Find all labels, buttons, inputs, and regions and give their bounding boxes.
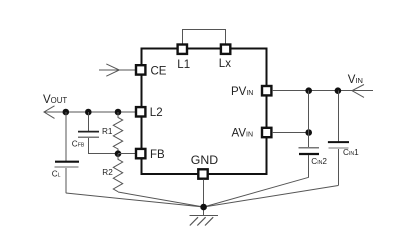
svg-text:FB: FB [150, 149, 165, 161]
wire CE input [99, 69, 136, 71]
inductor wire L1-Lx [183, 30, 226, 44]
node dot CFB/VOUT [85, 109, 92, 116]
wire CL branch upper [65, 112, 67, 161]
wire CL to ground [66, 193, 204, 207]
node dot R1/VOUT [115, 109, 122, 116]
wire CIN1 to ground [204, 186, 339, 208]
svg-text:R2: R2 [102, 168, 113, 177]
wire CIN2 branch upper [308, 91, 310, 147]
svg-text:VOUT: VOUT [43, 94, 67, 106]
resistor R1 [113, 112, 122, 154]
capacitor CL [54, 162, 79, 167]
pin L2 [136, 107, 145, 116]
IC box U1 [142, 49, 267, 175]
wire CL branch lower [65, 168, 67, 193]
node dot ground [200, 204, 207, 211]
wire AVIN [272, 132, 309, 134]
node dot AVIN/CIN2 [305, 129, 312, 136]
node dot CIN1/PVIN [335, 87, 342, 94]
capacitor CIN1 [328, 142, 349, 148]
svg-text:L1: L1 [177, 59, 190, 71]
arrow VIN [352, 85, 364, 98]
arrow VOUT [44, 106, 55, 119]
wire CIN1 branch lower [337, 149, 339, 186]
wire PVIN rail [272, 90, 373, 92]
pin L1 [178, 45, 187, 54]
svg-text:GND: GND [191, 153, 218, 167]
wire CIN2 branch lower [308, 155, 310, 178]
pin Lx [221, 45, 230, 54]
pin PVIN [262, 86, 271, 95]
resistor R2 [113, 154, 122, 192]
wire CIN1 branch upper [337, 91, 339, 142]
capacitor CIN2 [299, 148, 320, 154]
svg-text:Lx: Lx [219, 58, 231, 70]
node dot CIN2/PVIN [305, 87, 312, 94]
svg-text:L2: L2 [150, 107, 163, 119]
svg-text:VIN: VIN [348, 74, 363, 86]
wire R2 to ground [118, 192, 204, 207]
wire GND pin to ground node [203, 180, 205, 216]
wire CFB branch upper [87, 112, 89, 131]
wire VOUT rail [44, 111, 136, 113]
node dot CL/VOUT [63, 109, 70, 116]
pin GND [198, 169, 207, 178]
wire CIN2 to ground [204, 177, 309, 207]
svg-text:R1: R1 [102, 127, 113, 136]
svg-text:CE: CE [151, 66, 167, 78]
capacitor CFB [78, 132, 99, 138]
ground symbol [189, 215, 218, 225]
arrow CE input [106, 64, 119, 76]
pin AVIN [262, 128, 271, 137]
node dot FB [115, 150, 122, 157]
pin FB [136, 149, 145, 158]
wire FB [118, 153, 136, 155]
pin CE [136, 65, 145, 74]
wire CFB branch lower [88, 138, 118, 154]
